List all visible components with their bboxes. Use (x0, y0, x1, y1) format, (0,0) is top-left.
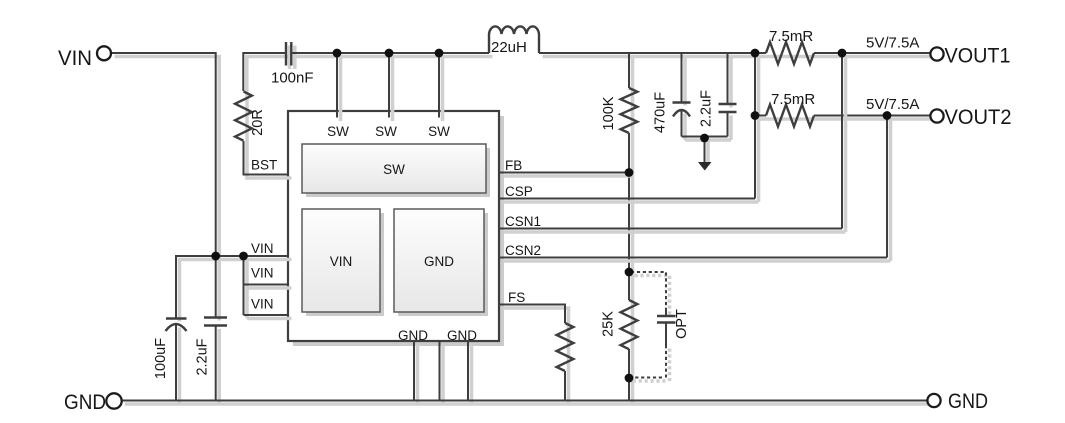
capacitor C 470uF branch (673, 53, 691, 140)
wire CSN2 vertical tap (887, 116, 891, 262)
resistor R 25K (621, 300, 638, 353)
svg-text:5V/7.5A: 5V/7.5A (866, 35, 919, 52)
svg-text:VIN: VIN (58, 47, 92, 70)
resistor R 7.5mR bottom (766, 105, 818, 127)
wire VIN rail to IC with 100uF drop (176, 256, 292, 322)
terminal GND right (927, 390, 988, 413)
node SW1 (333, 49, 342, 58)
IC GND pin 3 (468, 341, 472, 404)
svg-text:25K: 25K (601, 311, 617, 337)
svg-text:SW: SW (383, 162, 405, 177)
wire VIN pin 2 (244, 285, 292, 289)
capacitor C 2.2uF bottom (204, 256, 227, 404)
wire 100nF left lead and 20R top (243, 53, 289, 95)
inductor L1 22uH (489, 26, 539, 53)
IC inner block VIN (302, 209, 384, 316)
wire GND rail (121, 401, 931, 405)
terminal VOUT2 (930, 106, 1011, 129)
wire 100K branch top lead (629, 53, 633, 92)
IC GND pin 2 (440, 341, 444, 404)
node CSN1 tap (838, 49, 847, 58)
svg-text:GND: GND (64, 391, 106, 414)
svg-text:FS: FS (508, 290, 525, 305)
resistor R FS (557, 323, 574, 375)
wire SW rail (291, 53, 492, 57)
resistor 20R (235, 92, 252, 145)
wire to VOUT2 (814, 116, 934, 120)
resistor R 100K (621, 88, 638, 137)
svg-text:SW: SW (375, 124, 397, 139)
svg-text:2.2uF: 2.2uF (195, 338, 211, 375)
svg-text:VOUT2: VOUT2 (945, 106, 1012, 129)
wire CSN1 (499, 229, 846, 233)
svg-text:CSN1: CSN1 (505, 214, 541, 229)
svg-text:20R: 20R (250, 109, 266, 136)
wire to VOUT1 (814, 53, 934, 57)
wire FS resistor to GND rail (565, 371, 569, 404)
terminal GND left (64, 391, 122, 414)
svg-text:GND: GND (398, 328, 428, 343)
svg-text:VIN: VIN (251, 297, 274, 312)
wire output caps common bottom (682, 137, 732, 141)
terminal VOUT1 (930, 45, 1010, 68)
svg-text:VIN: VIN (251, 241, 274, 256)
resistor R 7.5mR top (766, 42, 818, 64)
wire SW pin drop 1 (337, 53, 341, 121)
wire SW pin drop 2 (389, 53, 393, 121)
wire 100K bottom to 25K top (629, 133, 633, 304)
wire VIN input top (111, 53, 219, 260)
svg-text:CSP: CSP (505, 184, 533, 199)
svg-text:SW: SW (428, 124, 450, 139)
wire CSN2 (499, 258, 891, 262)
svg-text:2.2uF: 2.2uF (699, 90, 715, 127)
wire sense node vertical to CSP (755, 53, 759, 202)
wire 25K bottom to GND rail (629, 349, 633, 404)
svg-text:VIN: VIN (330, 254, 353, 269)
node output caps gnd (700, 134, 709, 143)
svg-text:GND: GND (447, 328, 477, 343)
svg-text:470uF: 470uF (653, 92, 669, 133)
IC inner block GND (394, 209, 488, 316)
svg-text:OPT: OPT (674, 309, 690, 339)
node SW3 (435, 49, 444, 58)
wire VIN pin 3 (244, 315, 292, 319)
wire FS to resistor (499, 305, 569, 327)
node VOUT2 feed (751, 111, 760, 120)
wire 20R bottom to BST pin (244, 141, 292, 178)
capacitor C OPT dashed branch (631, 272, 676, 381)
capacitor C 100nF plates (286, 42, 295, 69)
wire output rail after inductor (539, 53, 770, 57)
svg-text:5V/7.5A: 5V/7.5A (866, 96, 919, 113)
capacitor C 2.2uF top branch (719, 53, 737, 140)
op-amp U1 IC body (288, 111, 504, 346)
node OPT bottom (625, 374, 634, 383)
svg-text:100nF: 100nF (271, 70, 314, 87)
svg-text:FB: FB (505, 158, 522, 173)
junction node dots (211, 49, 891, 383)
terminal VIN (58, 46, 111, 70)
node OPT top (625, 268, 634, 277)
svg-text:VIN: VIN (251, 266, 274, 281)
svg-text:CSN2: CSN2 (505, 243, 541, 258)
node VIN pins (239, 252, 248, 261)
node FB junction (625, 168, 634, 177)
svg-text:GND: GND (424, 254, 454, 269)
svg-text:22uH: 22uH (491, 39, 527, 56)
node CSN2 tap (883, 111, 892, 120)
svg-text:100K: 100K (601, 96, 617, 130)
node sense common (751, 49, 760, 58)
node SW2 (385, 49, 394, 58)
wire SW pin drop 3 (439, 53, 443, 121)
capacitor C 100uF plates (166, 319, 187, 405)
wire CSP (499, 199, 759, 203)
svg-text:7.5mR: 7.5mR (771, 91, 815, 108)
wire FB (499, 173, 633, 177)
ground symbol stem (698, 137, 712, 171)
svg-text:100uF: 100uF (153, 338, 169, 379)
svg-text:VOUT1: VOUT1 (945, 45, 1011, 68)
svg-text:BST: BST (251, 158, 277, 173)
svg-text:SW: SW (327, 124, 349, 139)
wire CSN1 vertical tap (842, 53, 846, 232)
node VIN drop (211, 252, 220, 261)
wire VOUT2 row feed (755, 116, 770, 120)
IC inner block SW (302, 144, 490, 197)
IC GND pin 1 (414, 341, 418, 404)
wire VIN pin connector (244, 256, 248, 319)
svg-text:GND: GND (948, 390, 988, 413)
svg-text:7.5mR: 7.5mR (769, 28, 813, 45)
